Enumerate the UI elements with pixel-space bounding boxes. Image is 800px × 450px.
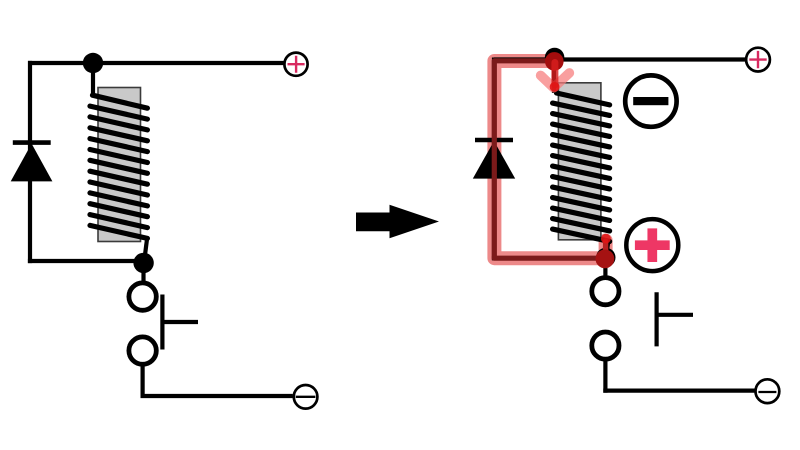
pushbutton SW (left) actuator stem	[162, 320, 198, 324]
junction node: top (right circuit, black)	[545, 48, 565, 68]
diode D (left) anode triangle	[11, 144, 53, 182]
wire: bottom rail (left circuit)	[141, 394, 293, 398]
negative terminal (right circuit) minus sign	[758, 391, 776, 393]
wire: coil bottom lead	[144, 238, 147, 264]
negative terminal (left circuit) minus sign	[296, 396, 316, 398]
wire: bottom loop horizontal (right circuit)	[492, 256, 606, 260]
junction node: bottom (left circuit)	[133, 253, 153, 273]
junction node: top (right circuit, red overlay)	[545, 52, 564, 71]
diode D (left) cathode bar	[13, 140, 51, 145]
pushbutton SW (left) actuator bar (closed)	[160, 295, 164, 350]
pushbutton SW (right) lower contact	[592, 332, 619, 359]
junction node: bottom (right circuit, red overlay)	[596, 250, 615, 269]
current direction arrow tip dot	[550, 82, 560, 92]
current direction arrow shaft (red)	[551, 63, 558, 86]
wire: top rail (left circuit)	[28, 61, 284, 65]
wire: junction to switch	[141, 262, 145, 284]
pushbutton SW (right) upper contact	[592, 278, 619, 305]
negative terminal (right circuit) ring	[756, 379, 780, 403]
wire: left loop vertical	[28, 61, 32, 263]
positive terminal (left circuit) plus sign	[288, 56, 305, 73]
polarity indicator: plus sign	[635, 228, 670, 262]
positive terminal (left circuit) ring	[284, 53, 307, 76]
highlighted current path: outer pink band	[494, 61, 605, 258]
wire: junction to coil top	[91, 62, 95, 96]
junction node: top (left circuit)	[83, 53, 103, 73]
coil L (left) bobbin body	[98, 88, 141, 242]
diode D (right) anode triangle	[473, 141, 515, 179]
pushbutton SW (left) lower contact	[129, 337, 156, 364]
wire: junction to coil top (right circuit)	[552, 58, 556, 93]
wire: left loop vertical (right circuit)	[492, 58, 496, 261]
wire: bottom rail (right circuit)	[603, 389, 754, 393]
current direction arrowhead (pink wings)	[541, 73, 570, 88]
transition arrow	[356, 205, 439, 239]
wire: junction to switch (right circuit)	[603, 258, 607, 279]
negative terminal (left circuit) ring	[294, 385, 318, 409]
pushbutton SW (left) upper contact	[129, 283, 156, 310]
polarity indicator: minus ring	[625, 75, 676, 126]
highlighted current path: bright segment at coil bottom	[603, 241, 608, 255]
coil L (right) bobbin body	[558, 83, 601, 240]
junction node: bottom (right circuit, black)	[596, 248, 615, 267]
wire: switch to bottom rail (right circuit)	[603, 359, 607, 393]
wire: switch to bottom rail	[141, 364, 145, 398]
polarity indicator: minus bar	[633, 97, 668, 105]
current path end dot at coil bottom	[601, 234, 611, 244]
pushbutton SW (right) actuator stem	[657, 313, 693, 317]
positive terminal (right circuit) ring	[746, 48, 770, 72]
wire: top rail (right circuit)	[494, 57, 746, 61]
wire: bottom loop horizontal	[28, 259, 144, 263]
diode D (right) cathode bar	[475, 138, 513, 143]
coil L (left) winding turns	[90, 95, 147, 238]
coil L (right) winding turns	[553, 93, 610, 241]
highlighted current path: dark red core	[494, 61, 605, 258]
polarity indicator: plus ring	[626, 219, 678, 271]
pushbutton SW (right) actuator bar (open)	[654, 292, 658, 346]
positive terminal (right circuit) plus sign	[749, 51, 766, 68]
wire: coil bottom lead (right circuit)	[606, 240, 609, 260]
